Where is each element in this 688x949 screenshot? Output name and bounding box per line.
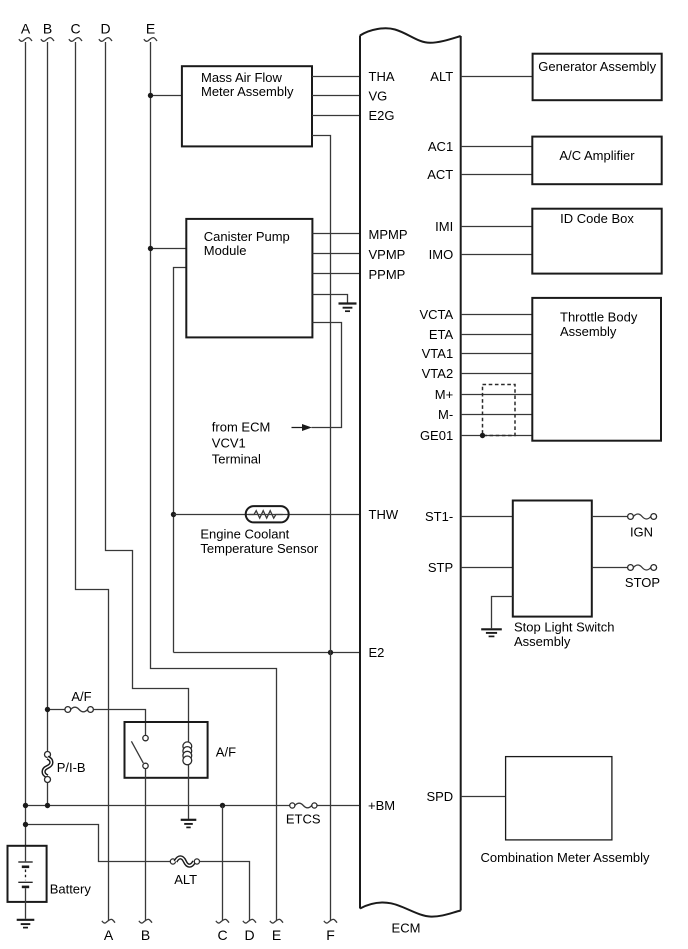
node dot A/+BM: [23, 803, 28, 808]
svg-text:Throttle Body: Throttle Body: [560, 310, 638, 325]
wire STP: [461, 567, 513, 569]
svg-text:ST1-: ST1-: [425, 509, 453, 524]
svg-text:M+: M+: [435, 387, 453, 402]
wire Canister VPMP: [312, 253, 360, 255]
wire MAF VG: [312, 95, 360, 97]
battery cells: [18, 862, 32, 887]
node D (bottom connector): [243, 919, 256, 942]
node B (bottom connector): [139, 919, 152, 942]
wire bottom exit C: [222, 806, 224, 922]
node A (bottom connector): [102, 919, 115, 942]
svg-text:+BM: +BM: [368, 798, 395, 813]
node D (top connector): [99, 21, 112, 42]
relay switch contacts: [131, 735, 148, 768]
wire GE01 to Throttle Body: [461, 435, 533, 437]
svg-text:VPMP: VPMP: [369, 247, 406, 262]
wire MAF to F rail: [312, 136, 331, 922]
shield (dashed) around motor wires: [483, 385, 516, 436]
battery BAT1: [8, 846, 92, 902]
connector IGN (break symbol): [628, 514, 657, 540]
svg-text:ETCS: ETCS: [286, 811, 321, 826]
svg-text:M-: M-: [438, 407, 453, 422]
svg-text:Module: Module: [204, 243, 247, 258]
connector STOP (break symbol): [625, 565, 660, 591]
svg-text:MPMP: MPMP: [369, 227, 408, 242]
thermistor Engine Coolant Temperature Sensor: [200, 506, 318, 556]
svg-text:C: C: [217, 927, 227, 943]
wire bus A (to battery): [25, 42, 27, 861]
svg-text:E: E: [146, 21, 155, 37]
svg-text:D: D: [244, 927, 254, 943]
wire ST1-: [461, 516, 513, 518]
svg-text:P/I-B: P/I-B: [57, 760, 86, 775]
svg-text:VTA2: VTA2: [422, 366, 454, 381]
wire ETA to Throttle Body: [461, 334, 533, 336]
fusible link P/I-B: [44, 752, 86, 783]
wire MAF E2G: [312, 115, 360, 117]
svg-text:PPMP: PPMP: [369, 267, 406, 282]
svg-text:Engine Coolant: Engine Coolant: [200, 527, 289, 542]
svg-text:VCV1: VCV1: [212, 436, 246, 451]
arrowhead VCV1: [292, 424, 312, 431]
wire +BM rail: [26, 805, 361, 807]
svg-text:B: B: [141, 927, 150, 943]
ground (relay coil): [181, 820, 197, 828]
wire Canister left to E2 rail: [174, 268, 187, 653]
Throttle Body Assembly U6: [532, 298, 661, 441]
svg-text:E2G: E2G: [369, 108, 395, 123]
svg-text:GE01: GE01: [420, 428, 453, 443]
wire VCTA to Throttle Body: [461, 314, 533, 316]
wire IMO: [461, 254, 533, 256]
svg-text:ETA: ETA: [429, 327, 454, 342]
svg-text:VG: VG: [369, 88, 388, 103]
svg-text:Stop Light Switch: Stop Light Switch: [514, 619, 614, 634]
fusible link ALT: [170, 857, 199, 887]
node dot E2/F junction: [328, 650, 333, 655]
fuse A/F: [48, 689, 146, 735]
A/C Amplifier U4: [532, 137, 661, 185]
svg-text:THW: THW: [369, 507, 399, 522]
wire AC1: [461, 146, 533, 148]
wire Canister PPMP: [312, 273, 360, 275]
svg-text:AC1: AC1: [428, 139, 453, 154]
wire MAF THA: [312, 76, 360, 78]
node dot B/+BM: [45, 803, 50, 808]
wire battery to ground: [25, 888, 27, 919]
svg-text:ALT: ALT: [430, 69, 453, 84]
svg-text:Battery: Battery: [50, 882, 92, 897]
ground (canister): [339, 304, 357, 312]
wire bus C (jog to bottom exit A): [76, 42, 109, 921]
svg-text:STOP: STOP: [625, 575, 660, 590]
node C (bottom connector): [216, 919, 229, 942]
svg-text:IGN: IGN: [630, 525, 653, 540]
node dot C-exit/+BM: [220, 803, 225, 808]
svg-text:IMO: IMO: [429, 247, 454, 262]
svg-text:ECM: ECM: [392, 921, 421, 936]
node E (top connector): [144, 21, 157, 42]
wire STOP: [592, 567, 628, 569]
svg-text:E2: E2: [369, 645, 385, 660]
svg-text:VCTA: VCTA: [419, 307, 453, 322]
ID Code Box U5: [532, 209, 661, 274]
wire IGN: [592, 516, 628, 518]
node dot E/MAF junction: [148, 93, 153, 98]
node C (top connector): [69, 21, 82, 42]
svg-text:Canister Pump: Canister Pump: [204, 229, 290, 244]
wire VTA1 to Throttle Body: [461, 353, 533, 355]
node F (bottom connector): [324, 919, 337, 942]
svg-text:SPD: SPD: [426, 789, 453, 804]
node dot GE01/shield: [480, 433, 485, 438]
wire Canister to ground: [312, 295, 347, 303]
wire E to Canister Pump box: [151, 248, 187, 250]
ground (stop light switch): [481, 629, 502, 636]
wire bus E (jog to bottom exit E): [151, 42, 277, 921]
wire battery to ALT fuse: [26, 825, 171, 862]
svg-text:IMI: IMI: [435, 219, 453, 234]
wire VCV1 to Canister: [312, 323, 342, 428]
node dot A/ALT branch: [23, 822, 28, 827]
svg-text:E: E: [272, 927, 281, 943]
svg-text:B: B: [43, 21, 52, 37]
Canister Pump Module U2: [186, 219, 312, 338]
svg-text:ID Code Box: ID Code Box: [560, 211, 634, 226]
wire ALT fuse to bottom exit D: [200, 862, 250, 922]
svg-text:Combination Meter Assembly: Combination Meter Assembly: [480, 850, 650, 865]
node dot THW tap: [171, 512, 176, 517]
wire relay switch to bottom exit B: [145, 769, 147, 921]
Combination Meter Assembly U7: [480, 757, 650, 866]
svg-text:from ECM: from ECM: [212, 420, 270, 435]
wire THW: [174, 514, 361, 516]
wire M- to Throttle Body: [461, 414, 533, 416]
svg-text:Assembly: Assembly: [560, 324, 617, 339]
svg-text:ALT: ALT: [174, 872, 197, 887]
wire stop light switch to ground: [492, 597, 513, 629]
node A (top connector): [19, 21, 32, 42]
wire SPD: [461, 796, 506, 798]
svg-text:ACT: ACT: [427, 167, 453, 182]
Mass Air Flow Meter Assembly U1: [182, 66, 312, 146]
svg-text:THA: THA: [369, 69, 395, 84]
ground (battery): [17, 920, 35, 928]
node dot E/Canister junction: [148, 246, 153, 251]
svg-text:Generator Assembly: Generator Assembly: [538, 59, 656, 74]
svg-text:Meter Assembly: Meter Assembly: [201, 84, 294, 99]
svg-text:A: A: [104, 927, 114, 943]
ECM body (torn-edge outline): [360, 28, 461, 935]
node dot B/fuse junction: [45, 707, 50, 712]
svg-text:Assembly: Assembly: [514, 634, 571, 649]
wire relay coil to ground: [188, 765, 190, 819]
svg-text:VTA1: VTA1: [422, 346, 454, 361]
wire bus B (to +BM): [47, 42, 49, 806]
svg-text:STP: STP: [428, 560, 453, 575]
svg-text:A/F: A/F: [71, 689, 91, 704]
fuse ETCS: [286, 803, 321, 826]
Generator Assembly U3: [533, 54, 662, 100]
node B (top connector): [41, 21, 54, 42]
svg-text:Terminal: Terminal: [212, 452, 261, 467]
wire Canister MPMP: [312, 233, 360, 235]
relay coil: [183, 742, 192, 765]
label from ECM VCV1 Terminal: [212, 420, 270, 467]
wire M+ to Throttle Body: [461, 394, 533, 396]
svg-text:Temperature Sensor: Temperature Sensor: [200, 541, 318, 556]
relay A/F K1: [125, 722, 237, 778]
node E (bottom connector): [270, 919, 283, 942]
svg-text:D: D: [100, 21, 110, 37]
wire VTA2 to Throttle Body: [461, 373, 533, 375]
Stop Light Switch Assembly SW1: [513, 501, 615, 649]
svg-text:A/C Amplifier: A/C Amplifier: [559, 148, 635, 163]
wire E2 rail to ECM: [174, 652, 361, 654]
svg-text:C: C: [70, 21, 80, 37]
wire E to Mass Air Flow box: [151, 95, 182, 97]
svg-text:F: F: [326, 927, 335, 943]
svg-text:A: A: [21, 21, 31, 37]
wire ALT to Generator: [461, 76, 533, 78]
wire bus D (to relay coil): [106, 42, 189, 743]
wire IMI: [461, 226, 533, 228]
wire ACT: [461, 174, 533, 176]
svg-text:A/F: A/F: [216, 744, 236, 759]
